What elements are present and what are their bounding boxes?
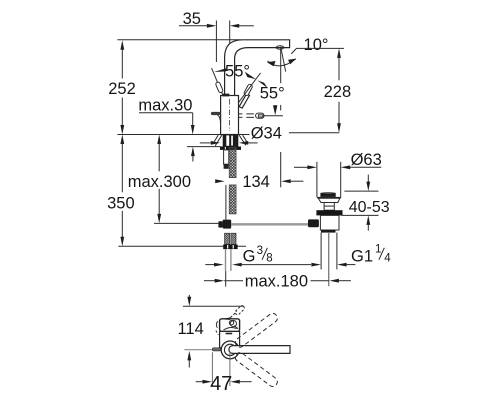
dimension 35 bbox=[179, 10, 254, 62]
faucet body bbox=[221, 94, 239, 135]
pop-up knob on body left bbox=[211, 112, 221, 124]
spout axis tilted line bbox=[281, 47, 286, 72]
press-down arrow bbox=[273, 105, 277, 115]
handle lever (closed position) bbox=[239, 84, 253, 108]
spout axis vertical line bbox=[280, 47, 282, 83]
label 55 degrees (handle swing) bbox=[238, 72, 285, 104]
drain neck bbox=[324, 203, 334, 211]
faucet body (top view) bbox=[220, 331, 240, 347]
dashed handle knob (raised, top view) bbox=[234, 305, 245, 316]
lever tip (top view) bbox=[212, 348, 220, 351]
svg-text:47: 47 bbox=[210, 373, 232, 395]
top reference line (spout top level) bbox=[117, 39, 240, 41]
svg-text:228: 228 bbox=[324, 83, 352, 101]
dimension 252 bbox=[108, 40, 136, 134]
114 top extension line bbox=[183, 305, 243, 307]
pop-up rod thin vertical bbox=[225, 185, 227, 220]
threaded pipe below nut bbox=[226, 249, 231, 271]
drain locknut bbox=[316, 210, 342, 215]
dimension max.30 bbox=[138, 97, 194, 162]
114 bottom extension line (spout axis) bbox=[184, 349, 213, 351]
dimension 134 bbox=[215, 152, 303, 191]
small dash below-left bbox=[216, 331, 219, 335]
svg-text:Ø34: Ø34 bbox=[251, 124, 282, 142]
spout bar (top view) bbox=[229, 346, 290, 354]
spout outline bbox=[225, 40, 290, 96]
svg-text:max.30: max.30 bbox=[138, 97, 192, 115]
deck underside line bbox=[187, 146, 220, 148]
dimension diameter 63 bbox=[294, 151, 382, 197]
drain flange (pop-up waste top) bbox=[317, 193, 341, 203]
cartridge housing (top view) bbox=[220, 319, 240, 332]
drain tailpipe G1 1/4 bbox=[321, 233, 337, 270]
max.300 extension line bbox=[154, 222, 218, 224]
350 extension line bbox=[118, 245, 246, 247]
flexible hose upper bbox=[229, 147, 236, 177]
svg-text:1: 1 bbox=[375, 244, 381, 256]
supply hose G3/8 thread ends bbox=[225, 233, 236, 244]
deck hatch left bbox=[214, 135, 222, 146]
label 55 degrees (handle lift) bbox=[214, 62, 250, 80]
dimension 350 bbox=[107, 135, 135, 247]
dimension 40-53 bbox=[341, 175, 390, 231]
shared dimension line G3/8 and G1 1/4 bbox=[205, 263, 355, 267]
svg-text:max.300: max.300 bbox=[128, 173, 191, 191]
dimension max.300 bbox=[128, 135, 191, 224]
svg-text:max.180: max.180 bbox=[245, 272, 308, 290]
svg-text:40-53: 40-53 bbox=[349, 199, 390, 216]
label G 3/8 bbox=[243, 245, 273, 265]
svg-text:8: 8 bbox=[266, 253, 272, 265]
svg-text:350: 350 bbox=[107, 195, 135, 213]
body centerline bbox=[229, 99, 231, 131]
deck top line right segment bbox=[239, 134, 250, 136]
dimension 10 degrees bbox=[267, 36, 344, 110]
pop-up rod (behind body, to right) bbox=[239, 105, 284, 118]
hose coupling nut bbox=[223, 245, 237, 250]
drain axis line bbox=[328, 233, 330, 286]
dimension 47 bbox=[196, 351, 252, 395]
small arc left of housing bbox=[216, 321, 217, 328]
svg-text:134: 134 bbox=[242, 173, 270, 191]
drain body bottom band bbox=[321, 230, 336, 233]
deck top line left segment bbox=[117, 134, 220, 136]
svg-text:114: 114 bbox=[177, 320, 203, 338]
label G1 1/4 bbox=[351, 244, 391, 266]
rotation arrow on housing bbox=[221, 317, 231, 320]
pop-up rod guide tube bbox=[224, 150, 229, 169]
dashed spout swing lower bbox=[234, 351, 279, 388]
raised handle (open position) bbox=[212, 68, 224, 95]
rod attachment knob bbox=[308, 219, 319, 227]
mounting shank (black, through deck) bbox=[223, 135, 239, 147]
dimension 114 bbox=[177, 295, 203, 368]
svg-text:55°: 55° bbox=[225, 62, 250, 80]
flexible hose lower bbox=[229, 185, 236, 214]
svg-text:10°: 10° bbox=[304, 36, 329, 54]
svg-text:Ø63: Ø63 bbox=[351, 151, 382, 169]
horizontal pop-up rod (gray) bbox=[231, 223, 308, 226]
svg-text:3: 3 bbox=[257, 245, 263, 257]
svg-text:252: 252 bbox=[108, 80, 136, 98]
svg-text:G: G bbox=[243, 247, 256, 265]
svg-text:G1: G1 bbox=[351, 247, 373, 265]
dashed spout swing upper bbox=[234, 312, 279, 349]
svg-text:55°: 55° bbox=[260, 85, 285, 103]
ball joint at rod bottom bbox=[218, 220, 231, 229]
mounting nut bbox=[220, 147, 241, 150]
dashed connector line bbox=[231, 311, 237, 317]
drain body bbox=[320, 215, 339, 230]
dimension diameter 34 bbox=[200, 124, 339, 145]
dimension 228 bbox=[324, 48, 352, 132]
deck hatch right bbox=[239, 135, 247, 145]
dimension max.180 bbox=[204, 271, 351, 290]
body top black band bbox=[222, 94, 229, 97]
spout base circle bbox=[221, 341, 239, 359]
svg-text:4: 4 bbox=[384, 253, 391, 265]
aerator outlet bbox=[276, 46, 284, 49]
